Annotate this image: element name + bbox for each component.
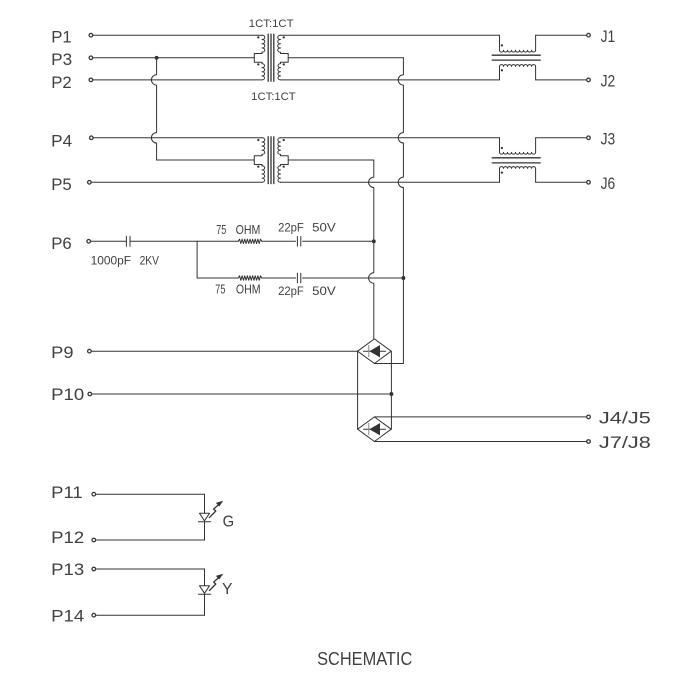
svg-text:50V: 50V: [312, 284, 336, 298]
svg-text:1CT:1CT: 1CT:1CT: [251, 91, 296, 103]
svg-text:P10: P10: [51, 385, 84, 404]
svg-text:J6: J6: [601, 174, 616, 193]
svg-text:J1: J1: [601, 27, 616, 46]
svg-text:P2: P2: [51, 73, 71, 92]
svg-text:P5: P5: [51, 175, 71, 194]
svg-text:J2: J2: [601, 72, 616, 91]
svg-text:P12: P12: [51, 528, 84, 547]
svg-text:2KV: 2KV: [140, 254, 159, 268]
svg-text:J7/J8: J7/J8: [599, 433, 651, 452]
svg-text:OHM: OHM: [236, 283, 261, 297]
svg-text:P13: P13: [51, 560, 84, 579]
svg-text:J4/J5: J4/J5: [599, 408, 651, 427]
svg-text:P1: P1: [51, 28, 71, 47]
svg-text:22pF: 22pF: [278, 284, 304, 298]
svg-text:75: 75: [216, 223, 226, 237]
svg-text:P14: P14: [51, 606, 84, 625]
svg-text:22pF: 22pF: [278, 221, 304, 235]
svg-text:1CT:1CT: 1CT:1CT: [249, 18, 294, 30]
svg-text:Y: Y: [222, 581, 233, 598]
svg-text:SCHEMATIC: SCHEMATIC: [317, 648, 412, 669]
svg-text:P4: P4: [51, 131, 72, 150]
svg-text:P6: P6: [51, 234, 71, 253]
svg-text:P3: P3: [51, 50, 72, 69]
svg-text:OHM: OHM: [236, 223, 261, 237]
svg-text:G: G: [223, 513, 235, 530]
svg-text:P11: P11: [51, 483, 82, 502]
svg-text:P9: P9: [51, 343, 73, 362]
svg-text:1000pF: 1000pF: [91, 254, 132, 268]
svg-text:50V: 50V: [312, 221, 336, 235]
svg-text:75: 75: [215, 283, 225, 297]
svg-text:J3: J3: [601, 129, 616, 148]
